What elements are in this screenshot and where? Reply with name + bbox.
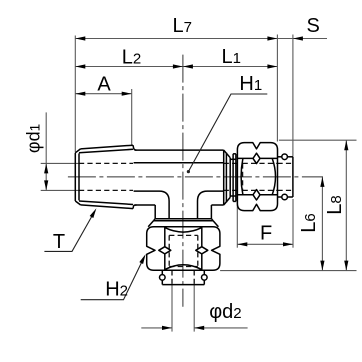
right nut corner diamonds bbox=[253, 153, 260, 163]
dimension line A bbox=[75, 93, 131, 95]
dimension line L7 + S bbox=[75, 38, 327, 40]
extension line left (thread end face, for L7/L2/A) bbox=[74, 36, 76, 153]
thread end steps bbox=[133, 145, 137, 150]
svg-text:L8: L8 bbox=[324, 195, 346, 214]
L7 left arrow bbox=[75, 36, 85, 40]
A arrows bbox=[75, 92, 85, 96]
crest lines bbox=[81, 145, 134, 149]
svg-text:T: T bbox=[53, 231, 65, 253]
L1 right arrow bbox=[267, 64, 277, 68]
bottom nut corner diamonds bbox=[159, 247, 171, 254]
bottom flare band bbox=[155, 218, 211, 220]
hex inner line bottom right + fillet bbox=[198, 191, 224, 201]
body bottom edge (right of branch) bbox=[211, 204, 223, 206]
svg-text:L6: L6 bbox=[298, 213, 320, 232]
root lines bbox=[79, 149, 133, 153]
svg-text:S: S bbox=[307, 15, 320, 37]
bore in thread bbox=[79, 162, 133, 164]
dimension line L2 / L1 bbox=[75, 66, 277, 68]
phi-d2 arrows bbox=[162, 326, 172, 330]
right collar verticals bbox=[229, 158, 231, 198]
bottom stub bbox=[161, 270, 163, 284]
chamfers bbox=[75, 149, 80, 153]
F extension left bbox=[236, 191, 238, 248]
male taper thread: end face bbox=[74, 153, 76, 201]
F arrows bbox=[237, 242, 247, 246]
right nut outline bbox=[237, 143, 277, 211]
T leader bbox=[44, 212, 94, 252]
phi-d1 extension horizontals bbox=[41, 162, 79, 164]
L2 right / L1 left arrows bbox=[173, 64, 183, 68]
L8 dimension vertical bbox=[345, 140, 347, 270]
hex inner line bottom left + fillet bbox=[134, 191, 170, 201]
bottom nut face chamfer arcs bbox=[165, 228, 202, 233]
phi-d2 dimension line bbox=[141, 327, 172, 329]
body right end face bbox=[223, 150, 225, 205]
extension line L7 right / S left bbox=[276, 35, 278, 142]
horizontal axis bbox=[68, 176, 323, 178]
extension line A right bbox=[131, 89, 133, 146]
branch vertical axis bbox=[182, 55, 184, 307]
body top edge bbox=[135, 149, 224, 151]
H1 leader bbox=[188, 94, 267, 172]
thread root face edge bbox=[78, 153, 80, 200]
bottom nut corner lines bbox=[164, 227, 166, 270]
svg-text:F: F bbox=[260, 222, 272, 244]
phi-d1 dimension vertical bbox=[45, 112, 47, 189]
S arrow (outside, pointing left) bbox=[293, 36, 303, 40]
svg-text:φd2: φd2 bbox=[209, 301, 241, 323]
phi-d2 extension verticals bbox=[171, 285, 173, 332]
L6 arrows bbox=[320, 177, 324, 187]
right nut face chamfer arcs bbox=[241, 158, 243, 194]
bottom stub bore bbox=[171, 270, 173, 284]
bottom nut thread box bbox=[168, 235, 170, 266]
branch inner walls bbox=[168, 201, 170, 219]
right stub bbox=[278, 156, 293, 158]
svg-text:L1: L1 bbox=[222, 46, 241, 68]
branch outer walls bbox=[154, 205, 156, 219]
L6 dimension vertical bbox=[321, 177, 323, 271]
arrowheads bbox=[44, 36, 348, 330]
F extension right bbox=[292, 199, 294, 248]
L8 arrows bbox=[344, 140, 348, 150]
right stub bore bbox=[278, 162, 293, 164]
svg-text:L7: L7 bbox=[173, 15, 192, 37]
body bottom edge (left of branch) bbox=[135, 204, 156, 206]
extension line nut-top right (L8 top) bbox=[279, 139, 357, 141]
hex inner line top bbox=[134, 162, 224, 164]
svg-text:H2: H2 bbox=[105, 279, 128, 301]
bottom nut outline bbox=[147, 227, 220, 270]
extension line S right bbox=[292, 35, 294, 157]
bore across right junction bbox=[224, 162, 238, 164]
phi-d1 arrows bbox=[44, 163, 48, 173]
L2 left arrow bbox=[75, 64, 85, 68]
F dimension line bbox=[237, 243, 293, 245]
right nut thread box bbox=[243, 162, 278, 164]
svg-text:H1: H1 bbox=[239, 73, 262, 95]
right collar horizontals bbox=[230, 158, 236, 160]
L7 right arrow bbox=[267, 36, 277, 40]
right end chamfers bbox=[224, 150, 231, 158]
right nut corner lines bbox=[237, 157, 277, 159]
svg-text:L2: L2 bbox=[122, 46, 141, 68]
extension line bottom (L6/L8 bottom) bbox=[220, 270, 356, 272]
svg-text:A: A bbox=[97, 74, 111, 96]
H2 leader bbox=[81, 257, 145, 300]
